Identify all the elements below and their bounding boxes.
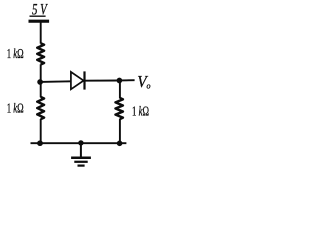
- diode D1 triangle: [71, 72, 84, 89]
- ground bar 3: [78, 165, 85, 167]
- diode D1 cathode bar: [83, 71, 85, 89]
- power supply terminal underline: [30, 15, 46, 17]
- resistor R2: [37, 97, 44, 119]
- node VCC label 5 V: [32, 1, 48, 18]
- wire R3 to bottom rail: [119, 119, 121, 143]
- ground node junction dot: [78, 140, 83, 145]
- wire R1 to node A: [40, 64, 42, 82]
- node Vo label: [137, 72, 150, 91]
- svg-text:1 kΩ: 1 kΩ: [132, 105, 149, 120]
- svg-text:o: o: [147, 81, 151, 90]
- wire node A to diode anode: [40, 80, 71, 83]
- resistor R3: [116, 98, 123, 119]
- bottom left junction dot: [37, 140, 43, 146]
- power supply bar: [29, 20, 50, 23]
- node A junction dot: [37, 79, 43, 85]
- wire node Vo to output terminal: [119, 79, 134, 81]
- bottom right junction dot: [117, 141, 123, 147]
- value label 1 kOhm (R3): [132, 105, 149, 120]
- value label 1 kOhm (R2): [7, 102, 24, 117]
- wire diode cathode to node Vo: [85, 80, 119, 82]
- ground stem: [80, 143, 82, 157]
- wire supply to R1: [40, 21, 42, 43]
- svg-text:1 kΩ: 1 kΩ: [7, 47, 24, 62]
- node Vo junction dot: [117, 78, 123, 84]
- bottom ground rail wire: [31, 142, 127, 144]
- resistor R1: [37, 43, 44, 64]
- value label 1 kOhm (R1): [7, 47, 24, 62]
- wire node Vo down to R3: [119, 81, 121, 99]
- ground bar 1: [71, 157, 91, 160]
- svg-text:1 kΩ: 1 kΩ: [7, 102, 24, 117]
- wire R2 to bottom rail: [40, 119, 42, 143]
- ground bar 2: [74, 161, 87, 163]
- wire node A down to R2: [40, 82, 42, 97]
